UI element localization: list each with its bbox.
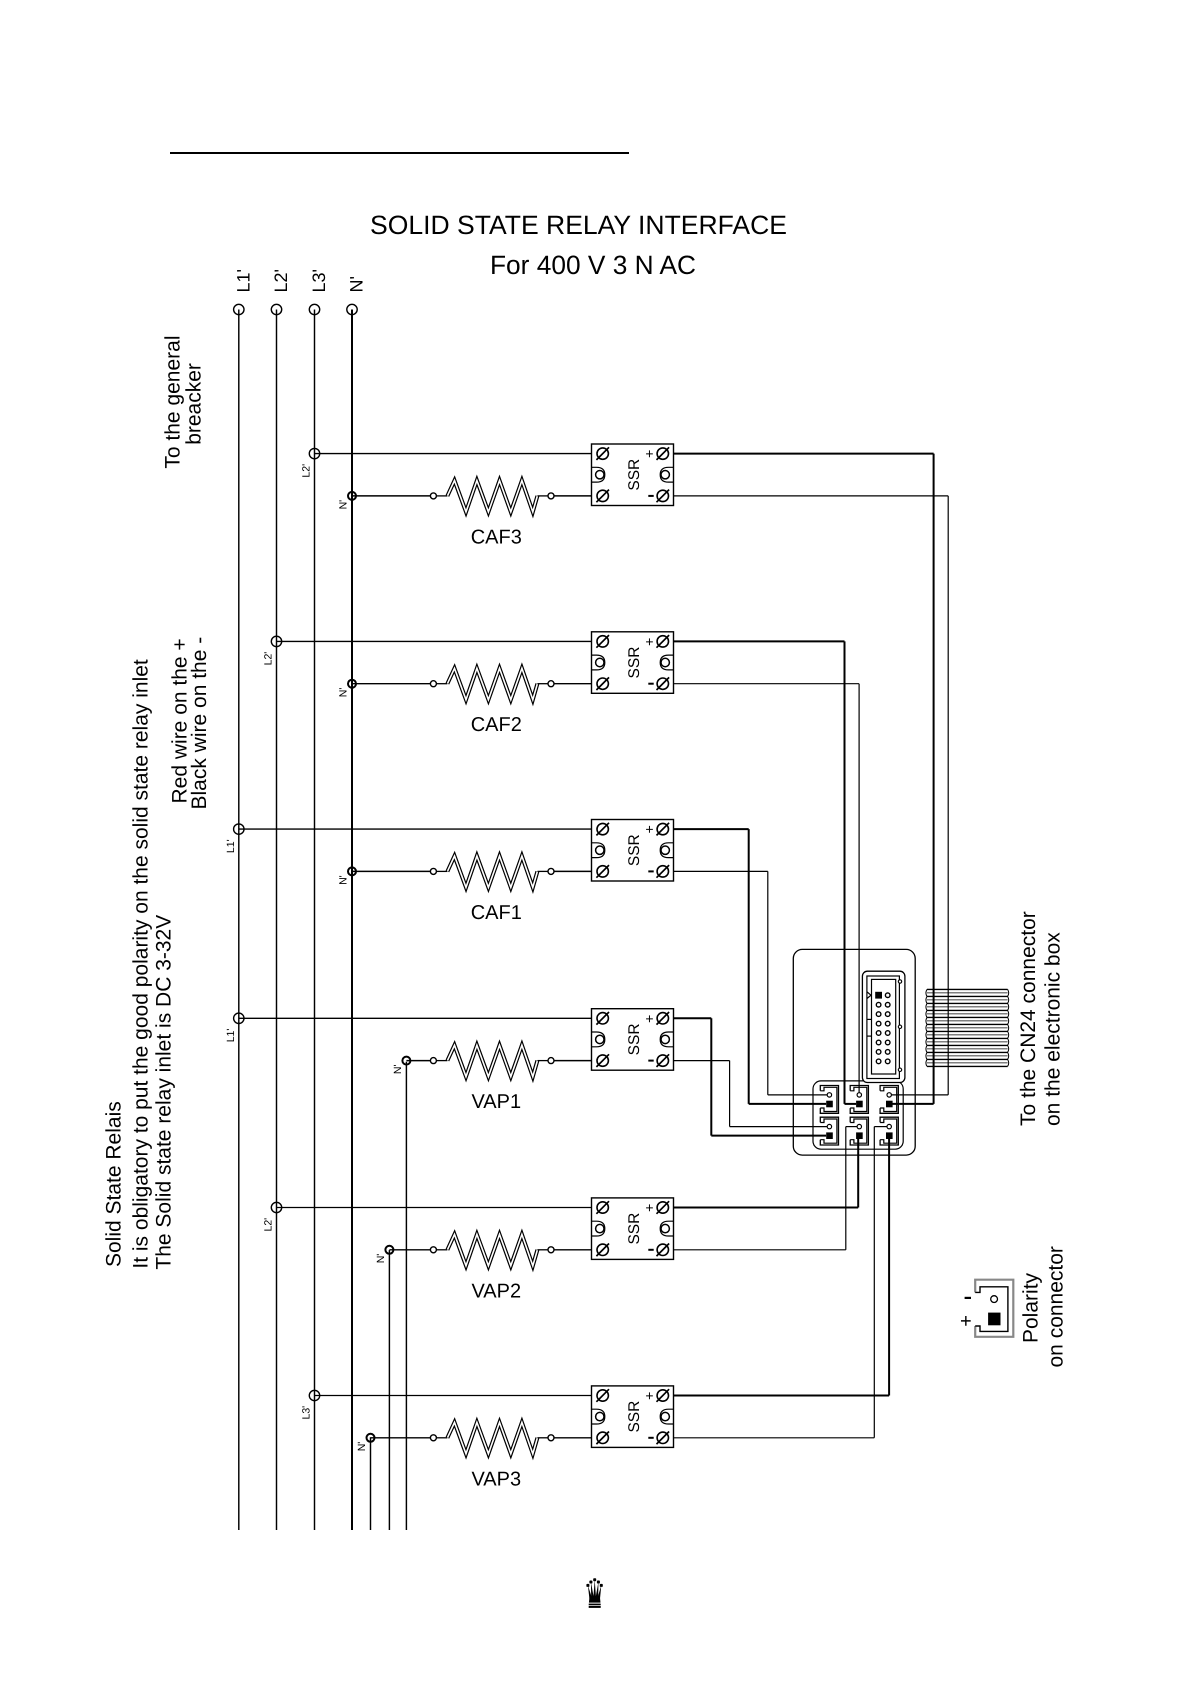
svg-text:N': N'	[356, 1442, 368, 1452]
svg-text:on the electronic box: on the electronic box	[1042, 932, 1065, 1126]
svg-text:L1': L1'	[225, 839, 237, 853]
svg-text:To the general: To the general	[162, 335, 185, 468]
svg-text:VAP2: VAP2	[471, 1280, 521, 1302]
svg-text:SSR: SSR	[626, 647, 643, 679]
svg-text:N': N'	[338, 500, 350, 510]
svg-text:Polarity: Polarity	[1020, 1272, 1043, 1343]
svg-text:N': N'	[338, 688, 350, 698]
svg-text:L1': L1'	[225, 1029, 237, 1043]
svg-text:+: +	[645, 1388, 653, 1404]
svg-text:L2': L2'	[263, 1218, 275, 1232]
svg-text:VAP3: VAP3	[471, 1468, 521, 1490]
svg-text:+: +	[960, 1310, 972, 1332]
svg-text:+: +	[645, 1010, 653, 1026]
svg-text:For 400 V 3 N AC: For 400 V 3 N AC	[490, 250, 696, 280]
svg-text:+: +	[645, 446, 653, 462]
svg-text:CAF3: CAF3	[471, 526, 522, 548]
svg-text:L2': L2'	[271, 269, 291, 292]
svg-text:N': N'	[338, 875, 350, 885]
svg-text:N': N'	[347, 276, 367, 292]
svg-text:L3': L3'	[301, 1406, 313, 1420]
svg-text:L3': L3'	[309, 269, 329, 292]
svg-text:+: +	[645, 821, 653, 837]
svg-text:SSR: SSR	[626, 1213, 643, 1245]
svg-text:Black wire on the -: Black wire on the -	[188, 637, 211, 810]
svg-text:It is obligatory to put the go: It is obligatory to put the good polarit…	[129, 659, 152, 1269]
svg-text:SSR: SSR	[626, 834, 643, 866]
svg-text:N': N'	[392, 1065, 404, 1075]
svg-text:L2': L2'	[301, 464, 313, 478]
svg-text:L2': L2'	[263, 652, 275, 666]
svg-text:L1': L1'	[233, 269, 253, 292]
svg-text:+: +	[645, 633, 653, 649]
svg-text:The Solid state relay inlet is: The Solid state relay inlet is DC 3-32V	[153, 915, 176, 1270]
svg-text:Solid State Relais: Solid State Relais	[103, 1101, 126, 1267]
svg-text:To the CN24 connector: To the CN24 connector	[1017, 911, 1040, 1126]
svg-text:CAF1: CAF1	[471, 902, 522, 924]
svg-text:breacker: breacker	[182, 363, 205, 445]
svg-text:+: +	[645, 1200, 653, 1216]
svg-text:SOLID STATE RELAY INTERFACE: SOLID STATE RELAY INTERFACE	[370, 210, 787, 240]
svg-text:N': N'	[375, 1254, 387, 1264]
svg-text:SSR: SSR	[626, 459, 643, 491]
svg-text:SSR: SSR	[626, 1023, 643, 1055]
svg-text:SSR: SSR	[626, 1401, 643, 1433]
svg-text:on connector: on connector	[1045, 1246, 1068, 1367]
svg-text:VAP1: VAP1	[471, 1091, 521, 1113]
svg-text:CAF2: CAF2	[471, 714, 522, 736]
